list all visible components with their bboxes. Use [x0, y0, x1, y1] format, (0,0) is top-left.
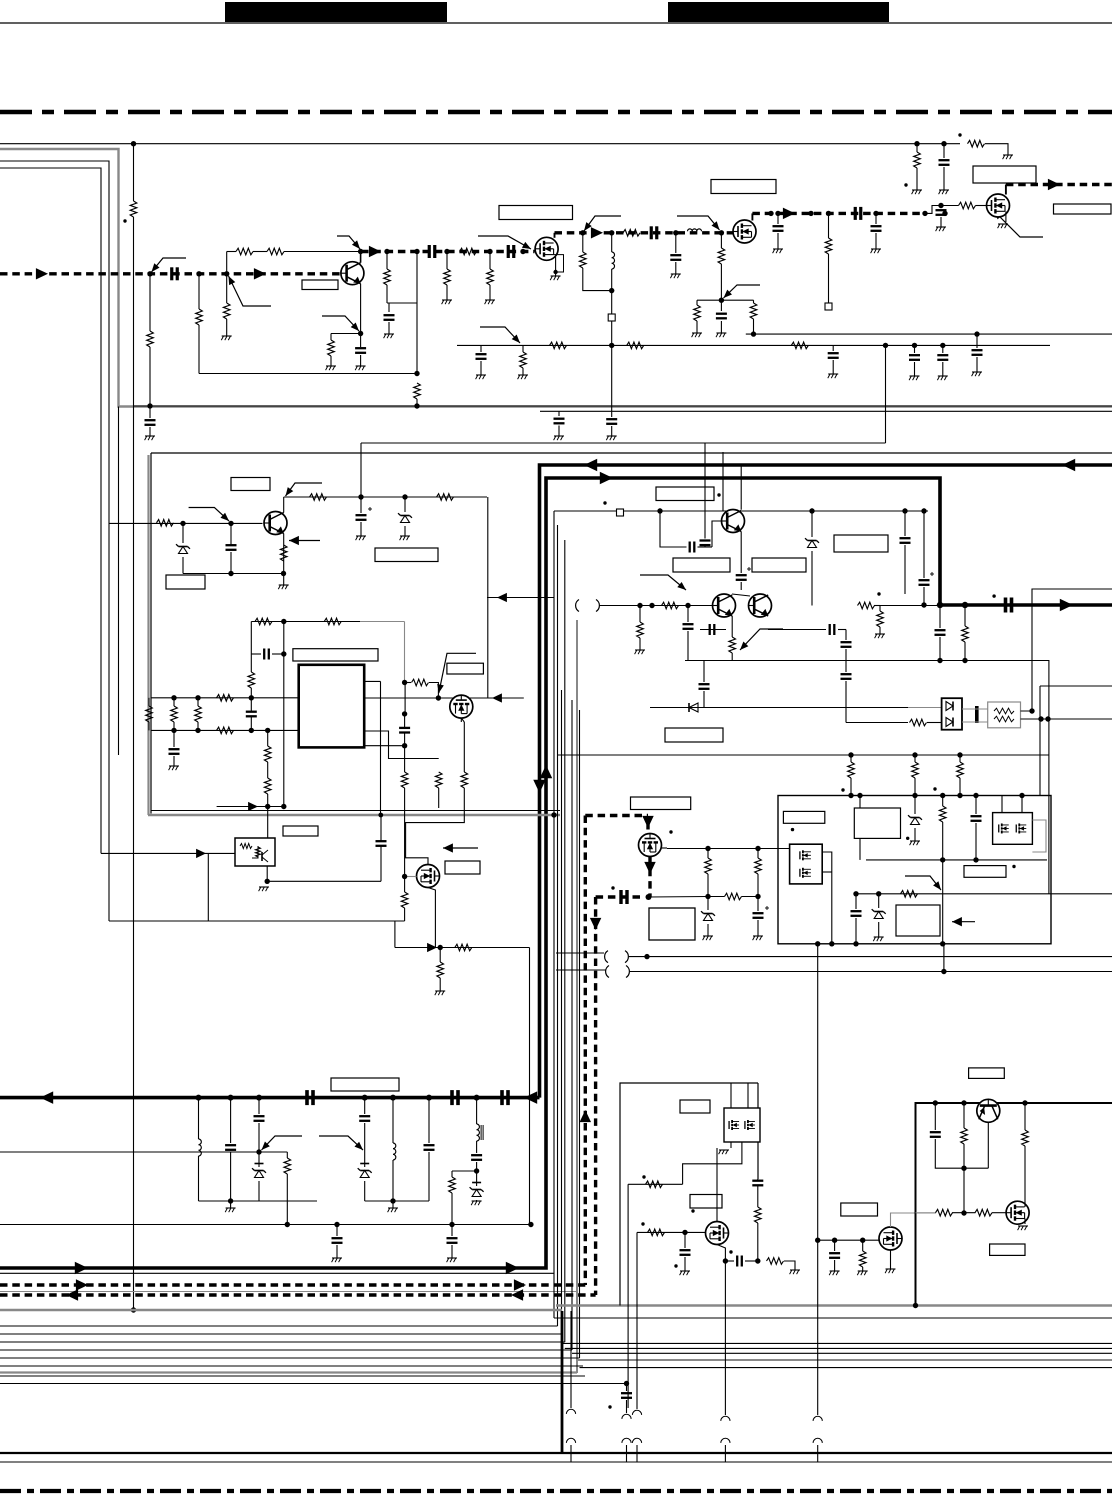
label box Q8 [447, 663, 484, 674]
capacitor C56 [930, 1132, 941, 1137]
wire wind feed1 [556, 952, 604, 954]
capacitor C10 [716, 314, 727, 319]
capacitor C59 [935, 630, 946, 635]
resistor R55 [725, 893, 742, 900]
wire x708 low [707, 897, 709, 911]
wire C61 down [740, 582, 742, 590]
wire R22 gnd [522, 368, 524, 375]
wire cap down [230, 552, 232, 574]
node N118 [938, 203, 943, 208]
capacitor C45 [225, 1145, 236, 1150]
wire C46 down [258, 1123, 260, 1167]
node N83 [940, 941, 945, 946]
node N34 [256, 1095, 262, 1101]
wire x704 drop [703, 661, 705, 683]
wire conn feed 1 [570, 1311, 572, 1408]
wire R40 end [404, 788, 406, 877]
ground G13 [773, 249, 783, 253]
label box a3 [964, 866, 1006, 878]
ground G28 [400, 536, 410, 540]
wire N14 down [675, 233, 677, 253]
wire y373 [199, 373, 417, 375]
node N82 [940, 857, 945, 862]
wire N9 down [489, 252, 491, 270]
bottom rail line 1 [0, 1452, 1112, 1454]
flow arrow [584, 459, 597, 471]
stray dot o [641, 1222, 644, 1225]
wire R9 to node [386, 285, 388, 303]
node N119 [913, 1303, 918, 1308]
wire Q11 emitter down [731, 616, 733, 637]
mosfet Q14 [879, 1227, 902, 1250]
resistor R6 [267, 248, 284, 255]
stray dot a [123, 219, 126, 222]
bus right 1 [554, 1317, 1112, 1319]
wire C19 gnd [976, 357, 978, 372]
wire Q5 gate line [661, 847, 667, 849]
RX path bottom 2 [0, 1293, 596, 1296]
resistor R21 [959, 202, 976, 209]
wire C9 gnd [675, 262, 677, 274]
capacitor C20 [554, 419, 565, 424]
wire C33 stubs [667, 546, 712, 548]
wire to R46 [439, 948, 441, 963]
wire to C17 [914, 345, 916, 353]
label box a1 [783, 811, 824, 823]
wire x380 drop [380, 681, 382, 815]
wire Q16 source [1024, 1219, 1026, 1225]
connector P2b [622, 1438, 631, 1443]
node N60 [402, 680, 407, 685]
capacitor C48 [424, 1145, 435, 1150]
resistor R70 [912, 762, 919, 778]
capacitor C21 [1006, 598, 1012, 613]
ground G32 [635, 650, 645, 654]
wire R51 gnd [879, 627, 881, 634]
wire y707 line [650, 707, 908, 709]
bus line 5 [0, 1357, 580, 1359]
wire N2 down [198, 274, 200, 309]
wire y853 line [101, 852, 235, 854]
wire feedback gray [360, 622, 405, 683]
wire PK2 stub1 [1001, 796, 1003, 813]
wire R14 down [583, 268, 612, 291]
wire R54 down [757, 874, 759, 911]
wire vertical V1 [133, 144, 135, 201]
capacitor C44 [851, 911, 862, 916]
wire x530 drop [529, 948, 531, 1225]
node V1 end [131, 1307, 136, 1312]
stray dot c [904, 183, 907, 186]
wire y860 line [866, 859, 1047, 861]
node N67 [921, 508, 926, 513]
wire x708 drop [707, 849, 709, 859]
node N3 [224, 271, 229, 276]
wire to C50 [336, 1225, 338, 1237]
mosfet Q9 [417, 865, 440, 888]
stray dot r [608, 1405, 611, 1408]
power bus B [0, 478, 1112, 1268]
callout to N1 [152, 258, 187, 272]
resistor R38 [264, 746, 271, 762]
wire N26 down [943, 144, 945, 158]
net V1 top wire [0, 143, 917, 145]
wire conn feed 2 [626, 1384, 628, 1392]
flow arrow [580, 1110, 591, 1122]
wire C31 stubs [380, 815, 382, 881]
ground G17 [939, 190, 949, 194]
zener diode D6 [908, 815, 922, 824]
bus gray lower [0, 1371, 577, 1373]
redaction bar 1 [225, 2, 447, 22]
resistor R34 [217, 727, 234, 734]
wire bus left 1 [0, 161, 109, 921]
wire y1152 feed [0, 1151, 259, 1153]
wire x924 drop [923, 511, 925, 578]
wire to C30 [173, 730, 175, 747]
wire y629 seg2 [768, 629, 826, 631]
wire Q7 out [266, 866, 268, 881]
wire N35 drop [364, 1098, 366, 1114]
wire to R70 [914, 755, 916, 762]
zener diode D1 [176, 544, 190, 553]
resistor R47 [662, 602, 679, 609]
ground G47 [857, 1271, 867, 1275]
box bottom gray [148, 814, 560, 816]
node N72 [1038, 716, 1043, 721]
wire N34 drop [258, 1098, 260, 1114]
wire R3 down [198, 325, 200, 374]
wire y629 seg [700, 629, 726, 631]
wire x283 run [283, 622, 285, 807]
box left edge [150, 453, 152, 814]
resistor R46 [437, 962, 444, 978]
node N40 [180, 521, 185, 526]
ground G50 [936, 227, 946, 231]
wire R18 down [828, 254, 830, 303]
capacitor C34 [900, 538, 911, 543]
node N116 [957, 793, 962, 798]
resistor R39 [264, 778, 271, 794]
wire C42 gnd [757, 920, 759, 936]
node N105 [860, 1238, 865, 1243]
wire gate feed [405, 682, 411, 684]
wire y660 line [685, 660, 920, 662]
capacitor C7 [651, 226, 657, 239]
resistor R72 [962, 626, 969, 642]
inductor L3 [199, 1139, 202, 1156]
callout to N5 [322, 316, 359, 331]
wire x1032 up [1032, 589, 1112, 711]
wire R16 gnd [696, 321, 698, 333]
resistor R14 [580, 252, 587, 268]
wire Q9 gate res [404, 877, 406, 893]
resistor R65 [961, 1128, 968, 1144]
node N1b [147, 403, 152, 408]
wire gate line gray2 [916, 1212, 937, 1214]
wire x860 drop [859, 796, 861, 860]
capacitor C47 [359, 1116, 370, 1121]
resistor R18 [825, 238, 832, 254]
wire C52 gnd [684, 1257, 686, 1271]
node N21 [808, 211, 813, 216]
wire x878 drop [878, 894, 880, 908]
node N90 [853, 941, 858, 946]
mosfet pack PK1 [790, 844, 823, 884]
wire N37 drop [428, 1098, 430, 1143]
wire x817 drop [817, 944, 819, 1415]
node N6 [384, 249, 389, 254]
ground G7 [485, 300, 495, 304]
label box b1 [673, 558, 730, 572]
wire y896 seg [708, 896, 758, 898]
wire to C16 [832, 345, 834, 351]
wire N12 down [582, 233, 584, 252]
ground G18 [998, 224, 1008, 228]
resistor R58 [284, 1158, 291, 1174]
wire C51 gnd [451, 1245, 453, 1258]
wire zener drop [182, 523, 184, 543]
resistor R11 [444, 269, 451, 285]
wire C54 stubs [757, 1179, 759, 1207]
node N27 [883, 343, 888, 348]
capacitor C33 [690, 542, 695, 553]
flow arrow [492, 693, 502, 702]
capacitor C6 [384, 315, 395, 320]
wire R46 gnd [439, 978, 441, 991]
ground G49 [1018, 1226, 1028, 1230]
wire Q10 base [712, 521, 722, 547]
flow arrow [1060, 599, 1073, 611]
capacitor C41 [699, 684, 710, 689]
node N12 [580, 230, 585, 235]
resistor R24 [627, 342, 644, 349]
wire top right [917, 143, 960, 145]
callout to N4 [337, 236, 360, 249]
capacitor C11 [855, 207, 861, 220]
ground G8 [550, 276, 560, 280]
flow arrow [590, 918, 601, 930]
label box Q2 [499, 206, 573, 220]
resistor R1 [130, 201, 137, 217]
node N79 [755, 894, 760, 899]
wire R21 gate [976, 205, 987, 207]
wire riser x361 [360, 443, 362, 497]
node N93 [256, 1149, 261, 1154]
ground G19 [476, 375, 486, 379]
node N96 [474, 1168, 479, 1173]
wire R71 down [959, 778, 961, 796]
wire PK3 stub2 [747, 1083, 749, 1108]
stray dot p [674, 1264, 677, 1267]
transistor Q10 [722, 510, 745, 533]
wire x640 drop [639, 606, 641, 623]
label box r1 [969, 1068, 1005, 1079]
mosfet Q4 [987, 194, 1010, 217]
wire N6 down [386, 252, 388, 270]
resistor R45 [455, 944, 472, 951]
wire y1152 link [259, 1151, 287, 1153]
switch path top [585, 814, 648, 817]
wire gray y1291 [0, 1291, 577, 1293]
wire rail y453 [151, 452, 1112, 454]
node N102 [755, 1258, 760, 1263]
wire R7 gnd [330, 356, 332, 366]
wire RP1 out2 [1021, 718, 1112, 720]
wire N5 left [331, 333, 361, 335]
redaction bar 2 [668, 2, 889, 22]
TX path bottom 1 [0, 1283, 585, 1286]
wire mid vert 4 [564, 540, 566, 1342]
node N56 [281, 804, 286, 809]
wire PK3 gnd stub [730, 1142, 732, 1148]
resistor R23 [550, 342, 567, 349]
mosfet pack PK2 [993, 813, 1033, 845]
node N110 [961, 1210, 966, 1215]
wire N36 drop [392, 1098, 394, 1143]
wire Q14 source [890, 1250, 892, 1269]
bus line 2 [0, 1333, 562, 1335]
node N48 [171, 695, 176, 700]
capacitor C5 [508, 245, 514, 258]
wire y947 line [395, 947, 530, 949]
mosfet Q2 [535, 237, 558, 260]
capacitor C57 [621, 1393, 632, 1398]
wire mid vert 3 [561, 690, 563, 1334]
wire to R22 [522, 345, 524, 352]
wire conn tail 3 [636, 1445, 638, 1462]
node N58 [378, 813, 383, 818]
wire to C56 [934, 1103, 936, 1130]
node N14 [673, 230, 678, 235]
capacitor C35 polarized [919, 572, 935, 585]
wire D5 gnd [707, 924, 709, 936]
zener diode D5 [701, 911, 715, 920]
wire rail y345 [457, 344, 1050, 346]
capacitor C60 [700, 541, 711, 546]
resistor R67 [975, 1209, 992, 1216]
node N115 [848, 793, 853, 798]
wire C36 down [687, 631, 689, 661]
IC pin row 1 [151, 697, 299, 699]
node N36 [390, 1095, 396, 1101]
wire base line [109, 522, 263, 524]
wire L3 down [198, 1156, 200, 1201]
node N38 [474, 1095, 480, 1101]
transformer T2 winding a [605, 951, 629, 963]
wire N5 down [360, 334, 362, 348]
flow arrow [591, 227, 603, 238]
flow arrow [369, 246, 381, 257]
capacitor C4 [429, 245, 435, 258]
capacitor C27 polarized [356, 507, 373, 520]
wire PK1 out2 [822, 871, 832, 873]
capacitor C29 [246, 712, 257, 717]
resistor R60 [646, 1181, 663, 1188]
resistor R66 [936, 1209, 953, 1216]
node N8 [444, 249, 449, 254]
flow arrow [75, 1262, 88, 1274]
label box Q5 [631, 797, 691, 810]
wire to R7 [330, 334, 332, 341]
node N76 [705, 846, 710, 851]
capacitor C40 [841, 674, 852, 679]
wire x856 drop [855, 894, 857, 909]
resistor R30 [255, 618, 272, 625]
IC pin c jog [364, 745, 404, 747]
capacitor C17 [909, 355, 920, 360]
node N86 [829, 941, 834, 946]
node N9 [487, 249, 492, 254]
ground G41 [332, 1258, 342, 1262]
wire C30 gnd [173, 756, 175, 766]
stray dot n [691, 1209, 694, 1212]
zener D3 drop [811, 511, 813, 537]
wire seg [952, 1212, 976, 1214]
node N91 [857, 793, 862, 798]
ground G24 [972, 372, 982, 376]
wire bus drop 2 [964, 605, 966, 626]
node N20 [775, 211, 780, 216]
wire R49 down [731, 653, 733, 661]
callout to Q2 gate [478, 236, 531, 249]
wire N15 down [720, 233, 722, 248]
bus line 7 [0, 1375, 585, 1377]
zener diode D8 [252, 1164, 266, 1178]
wire feedback y621 [251, 621, 360, 623]
node N69 [685, 603, 690, 608]
wire C14 gnd [943, 167, 945, 190]
capacitor C46 [254, 1116, 265, 1121]
flow arrow [76, 1279, 88, 1290]
connector P3a [632, 1410, 641, 1415]
node N54 [265, 728, 270, 733]
node N28 [912, 343, 917, 348]
resistor R25 [791, 342, 808, 349]
wire y722 line [846, 722, 908, 724]
wire y921 line [109, 920, 405, 922]
capacitor C52 [680, 1250, 691, 1255]
wire Q4 drain [1005, 185, 1007, 195]
resistor R68 [1022, 1130, 1029, 1146]
callout to N17 [724, 285, 761, 298]
resistor R49 [729, 637, 736, 653]
wire x208 drop [207, 853, 209, 921]
node N31 [962, 602, 968, 608]
resistor R42 [412, 679, 429, 686]
resistor R9 [384, 269, 391, 285]
flow arrow [1048, 179, 1060, 190]
wire N3 down [226, 274, 228, 303]
rail RX 2 [365, 1200, 429, 1202]
ground G2 [221, 336, 231, 340]
wire to C15 [480, 345, 482, 352]
label box U1 [293, 649, 378, 661]
bus line 3 [0, 1341, 565, 1343]
resistor R53 [705, 858, 712, 874]
resistor R8 [460, 248, 477, 255]
capacitor C58 [936, 210, 947, 215]
wire L4 down [392, 1160, 394, 1201]
capacitor C1 [172, 267, 178, 280]
switch cap path [596, 895, 640, 898]
resistor R50 [858, 602, 875, 609]
ground G11 [692, 333, 702, 337]
node N111 [624, 1381, 629, 1386]
IC pin b jog [364, 731, 439, 759]
board boundary dash-dot bottom [0, 1489, 1112, 1493]
op-amp U1 package [299, 665, 365, 748]
